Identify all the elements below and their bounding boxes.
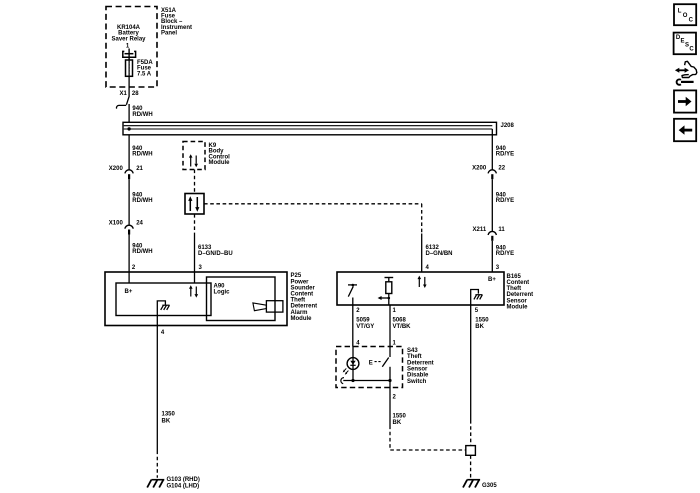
wire 5059 VT/GY to S43 pin 4 (353, 305, 375, 347)
B165 tamper switch pin 2 (348, 284, 357, 305)
svg-text:6132: 6132 (426, 245, 440, 251)
svg-text:Saver Relay: Saver Relay (111, 36, 146, 42)
svg-text:Switch: Switch (407, 379, 427, 385)
svg-text:1550: 1550 (475, 318, 489, 324)
svg-text:RD/YE: RD/YE (496, 251, 514, 257)
svg-text:D–GN/BN: D–GN/BN (426, 251, 453, 257)
label J208 (501, 123, 515, 129)
svg-text:Sounder: Sounder (291, 285, 316, 291)
svg-text:Logic: Logic (214, 289, 231, 295)
svg-text:1550: 1550 (393, 413, 407, 419)
svg-text:Theft: Theft (407, 354, 422, 360)
B165 data arrows pin 4 (418, 276, 427, 288)
svg-text:Sensor: Sensor (507, 298, 528, 304)
svg-text:X211: X211 (473, 227, 487, 233)
svg-text:E: E (681, 39, 685, 45)
wire 6132 D-GN/BN to B165 pin 4 (422, 234, 453, 273)
svg-text:P25: P25 (291, 273, 302, 279)
svg-text:D–GN/D–BU: D–GN/D–BU (198, 251, 233, 257)
svg-text:X100: X100 (109, 221, 124, 227)
splice connector square (466, 446, 476, 478)
svg-text:VT/BK: VT/BK (393, 324, 412, 330)
svg-text:C: C (689, 47, 694, 53)
dashed wire below gateway box (194, 214, 196, 234)
svg-text:RD/WH: RD/WH (132, 249, 152, 255)
svg-text:Module: Module (507, 304, 529, 310)
svg-text:VT/GY: VT/GY (356, 324, 374, 330)
B165 internal ground pin 5 (471, 290, 483, 306)
connector X1 pin 28 (116, 91, 139, 108)
dashed wire K9 to gateway box (194, 170, 196, 194)
S43 LED indicator (343, 347, 359, 381)
K9 data arrows (189, 154, 198, 167)
connector X211 pin 11 (473, 227, 506, 241)
junction bus J208 (123, 122, 497, 135)
svg-text:X1: X1 (119, 91, 127, 97)
icon LOC button (674, 4, 696, 25)
gateway data arrows (188, 196, 199, 211)
svg-text:RD/YE: RD/YE (496, 152, 514, 158)
A90 logic box (207, 277, 276, 321)
svg-text:Deterrent: Deterrent (291, 304, 318, 310)
label P25 Power Sounder Content Theft Deterrent Alarm Module (291, 273, 318, 322)
label A90 Logic (214, 283, 231, 295)
ground G103 G104 (147, 477, 200, 489)
svg-text:RD/WH: RD/WH (132, 112, 152, 118)
icon DESC button (674, 33, 696, 55)
svg-text:7.5 A: 7.5 A (137, 72, 152, 78)
svg-text:X200: X200 (472, 165, 487, 171)
svg-text:Alarm: Alarm (291, 310, 308, 316)
svg-text:6133: 6133 (198, 245, 212, 251)
svg-text:Content: Content (291, 292, 314, 298)
wire 1550 BK from S43 pin 2 (390, 381, 466, 451)
label K9 Body Control Module (209, 143, 231, 166)
svg-text:BK: BK (393, 420, 402, 426)
fuse block X51A dashed box (106, 7, 157, 88)
B165 sensor element pin 1 (378, 278, 394, 306)
P25 pin 4 wire 1350 BK (157, 326, 175, 478)
svg-text:Theft: Theft (507, 286, 522, 292)
label S43 Theft Deterrent Sensor Disable Switch (407, 348, 434, 385)
P25 pin 3 internal wire (194, 272, 196, 283)
svg-text:Sensor: Sensor (407, 367, 428, 373)
svg-text:B+: B+ (125, 289, 133, 295)
svg-text:RD/WH: RD/WH (132, 198, 152, 204)
connector X200 pin 21 (109, 166, 144, 179)
wire 940 RD/YE X211 to B165 pin 3 (492, 241, 514, 272)
module B165 box (337, 272, 504, 305)
svg-text:Power: Power (291, 279, 310, 285)
label B+ pin 3 (488, 277, 496, 283)
svg-text:B+: B+ (488, 277, 496, 283)
label fuse F5DA 7.5A (137, 60, 153, 78)
svg-text:Module: Module (291, 316, 313, 322)
serial data gateway box (185, 194, 204, 215)
svg-text:24: 24 (136, 221, 143, 227)
wire fuse to connector X1 (126, 77, 129, 105)
svg-text:Module: Module (209, 160, 231, 166)
svg-text:A90: A90 (214, 283, 226, 289)
svg-text:RD/WH: RD/WH (132, 152, 152, 158)
wire 940 RD/YE X200 to X211 (492, 179, 514, 231)
S43 disable switch contact (369, 347, 390, 381)
svg-text:5059: 5059 (356, 318, 370, 324)
svg-text:Content: Content (507, 280, 530, 286)
connector X200 pin 22 (472, 165, 506, 179)
icon back arrow button (674, 119, 696, 141)
P25 pin 2 internal wire (128, 272, 130, 283)
svg-text:Theft: Theft (291, 298, 306, 304)
svg-text:G305: G305 (482, 483, 497, 489)
wire 1550 BK from B165 pin 5 (471, 305, 490, 446)
label B165 Content Theft Deterrent Sensor Module (507, 274, 534, 311)
P25 logic data arrows (189, 285, 198, 297)
connector X100 pin 24 (109, 221, 144, 235)
serial data dashed wire to B165 (204, 204, 422, 234)
S43 bottom wire and junctions (341, 378, 392, 384)
svg-text:28: 28 (132, 91, 139, 97)
wire 940 RD/WH X100 to P25 pin 2 (129, 235, 153, 273)
wire 5068 VT/BK to S43 pin 1 (390, 305, 411, 347)
svg-text:BK: BK (162, 419, 171, 425)
B165 bottom pin numbers (356, 308, 478, 314)
svg-text:11: 11 (498, 227, 505, 233)
icon troubleshooting tool (675, 61, 697, 85)
icon next arrow button (674, 90, 696, 112)
ground G305 (463, 480, 497, 489)
relay KR104A contact (123, 49, 136, 61)
fuse F5DA (126, 60, 133, 77)
svg-text:S43: S43 (407, 348, 418, 354)
svg-text:Disable: Disable (407, 373, 429, 379)
label B+ (125, 289, 133, 295)
svg-text:E: E (369, 361, 373, 367)
svg-text:C: C (689, 17, 694, 23)
module P25 box (105, 272, 287, 326)
switch S43 dashed box (336, 347, 403, 388)
svg-text:G104 (LHD): G104 (LHD) (167, 483, 200, 489)
wire 940 RD/WH bus to X200 (129, 135, 153, 170)
relay KR104A label (111, 25, 146, 50)
svg-text:BK: BK (475, 324, 484, 330)
svg-text:21: 21 (136, 166, 143, 172)
wire 940 RD/WH X200 to X100 (129, 179, 153, 225)
svg-text:B165: B165 (507, 274, 522, 280)
label X51A Fuse Block - Instrument Panel (161, 8, 192, 37)
svg-text:O: O (683, 13, 688, 19)
svg-text:L: L (678, 9, 682, 15)
svg-text:RD/YE: RD/YE (496, 198, 514, 204)
svg-text:G103 (RHD): G103 (RHD) (167, 477, 200, 483)
wire 6133 D-GN/D-BU to P25 pin 3 (195, 234, 233, 273)
wire 940 RD/YE bus to X200 right (492, 129, 514, 170)
svg-text:Panel: Panel (161, 31, 177, 37)
svg-text:Deterrent: Deterrent (407, 360, 434, 366)
P25 internal ground (157, 301, 169, 326)
P25 B+ inner box (116, 283, 211, 316)
svg-text:5068: 5068 (393, 318, 407, 324)
svg-text:1350: 1350 (162, 411, 176, 417)
svg-text:Deterrent: Deterrent (507, 292, 534, 298)
svg-text:22: 22 (498, 165, 505, 171)
module K9 dashed box (183, 142, 205, 170)
wire 940 RD/WH fuse block to bus (129, 104, 153, 122)
svg-text:X200: X200 (109, 166, 124, 172)
speaker sounder icon (253, 301, 283, 312)
svg-text:J208: J208 (501, 123, 515, 129)
